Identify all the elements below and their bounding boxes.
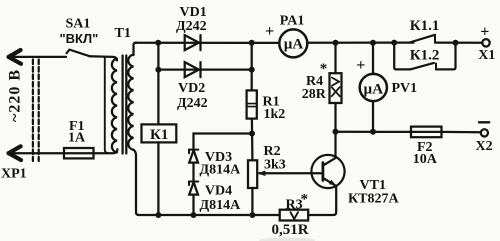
- wire: R2 wiper to VT1 base: [259, 172, 322, 174]
- wire: K1 to ground rail: [157, 142, 159, 215]
- junction: K1.1/K1.2 split: [391, 40, 397, 46]
- potentiometer R2: [248, 160, 257, 188]
- transformer T1 core: [121, 56, 123, 154]
- junction: R1 bottom node: [249, 131, 255, 137]
- meter PA1: [279, 29, 307, 57]
- wire: F2 to X2: [442, 131, 481, 134]
- transistor VT1: [311, 155, 344, 188]
- svg-text:1А: 1А: [68, 130, 86, 145]
- relay coil K1: [142, 124, 177, 142]
- wire: top rail left section: [135, 42, 279, 44]
- svg-text:*: *: [320, 61, 328, 77]
- junction: top rail to K1 branch: [155, 40, 161, 46]
- svg-text:0,51R: 0,51R: [272, 222, 309, 238]
- node: arrow head bottom pin XP1: [9, 146, 21, 160]
- svg-text:Д814А: Д814А: [200, 198, 242, 213]
- wire: SA1 to T1 primary: [90, 56, 118, 60]
- node: R2 wiper arrowhead: [257, 171, 265, 177]
- svg-text:К1: К1: [150, 127, 168, 143]
- wire: PV1 bottom lead: [372, 101, 374, 132]
- junction: PV1 bottom: [370, 129, 376, 135]
- svg-text:SA1: SA1: [66, 17, 91, 32]
- wire: collector riser: [334, 132, 336, 158]
- svg-text:К1.2: К1.2: [410, 48, 440, 64]
- junction: top rail to R1 column: [249, 40, 255, 46]
- zener VD4: [189, 182, 198, 195]
- meter PV1: [360, 74, 387, 101]
- svg-text:"ВКЛ": "ВКЛ": [60, 31, 99, 46]
- wire: VD4 to ground rail: [192, 195, 194, 215]
- junction: R4 top on rail: [333, 40, 339, 46]
- diode VD2: [185, 62, 201, 77]
- wire: F1 to transformer primary: [94, 149, 118, 153]
- wire: R2 bottom to ground rail: [251, 188, 253, 215]
- fuse F2: [411, 127, 442, 138]
- resistor R4: [330, 73, 342, 103]
- wire: K1.1 to X1: [435, 41, 482, 43]
- wire: rail to R4: [334, 43, 336, 73]
- wire: output node to F2: [336, 131, 412, 133]
- junction: K1 on ground rail: [155, 212, 161, 218]
- switch SA1 lever: [67, 50, 90, 57]
- wire: R1 column: [251, 43, 253, 91]
- svg-text:Д814А: Д814А: [200, 163, 242, 178]
- node: X2 minus sign: [479, 121, 489, 123]
- junction: R2 on ground rail: [249, 212, 255, 218]
- junction: PV1 top on rail: [370, 40, 376, 46]
- svg-text:Д242: Д242: [177, 96, 208, 111]
- svg-text:Т1: Т1: [115, 26, 131, 41]
- wire: node to zener chain: [194, 134, 253, 149]
- wire: AC input bottom pin shaft: [9, 152, 64, 154]
- resistor R1: [247, 90, 257, 118]
- wire: K1.2 branch left drop: [394, 43, 410, 70]
- fuse F1: [64, 148, 94, 158]
- svg-text:+: +: [356, 57, 365, 74]
- wire: emitter to ground rail corner: [308, 186, 336, 215]
- svg-text:VD4: VD4: [205, 183, 232, 198]
- wire: K1.2 rejoin riser: [436, 43, 456, 70]
- svg-text:1k2: 1k2: [264, 107, 286, 122]
- wire: VD2 anode branch: [158, 68, 251, 70]
- svg-text:VD1: VD1: [180, 5, 207, 20]
- svg-text:3k3: 3k3: [264, 157, 286, 172]
- svg-text:КТ827А: КТ827А: [348, 192, 399, 207]
- node: arrow head top pin XP1: [9, 50, 21, 64]
- svg-text:*: *: [301, 191, 309, 207]
- svg-text:Д242: Д242: [176, 19, 207, 34]
- wire: R1 bottom to R2 top: [251, 119, 254, 161]
- wire: K1 branch vertical: [157, 43, 159, 125]
- wire: VD3 to VD4: [192, 163, 194, 182]
- wire: primary left return line: [105, 57, 108, 153]
- svg-text:~220 В: ~220 В: [7, 69, 24, 122]
- wire: ground rail: [138, 214, 280, 216]
- wire: R4 bottom to node: [334, 103, 336, 132]
- transformer T1 primary winding: [112, 59, 117, 153]
- svg-text:VD2: VD2: [178, 81, 205, 96]
- junction: VD2 branch: [155, 67, 161, 73]
- svg-text:К1.1: К1.1: [410, 18, 440, 34]
- svg-text:28R: 28R: [302, 87, 327, 102]
- resistor R3: [280, 210, 309, 221]
- svg-text:+: +: [480, 24, 489, 41]
- svg-text:ХР1: ХР1: [1, 166, 27, 181]
- svg-text:Х2: Х2: [476, 139, 493, 154]
- wire: secondary top lead to rail: [134, 43, 137, 55]
- terminal X1: [482, 39, 489, 46]
- junction: R4 bottom / collector / output node: [333, 129, 339, 135]
- wire: AC input top pin shaft: [9, 56, 66, 58]
- junction: VD2 cathode to R1 column: [249, 67, 255, 73]
- wire: PV1 top lead: [372, 43, 374, 74]
- zener VD3: [189, 150, 198, 163]
- junction: K1.2 rejoin: [453, 40, 459, 46]
- wire: top rail PA1 to K1.1 contact: [307, 41, 413, 43]
- svg-text:PV1: PV1: [392, 81, 418, 96]
- transformer T1 secondary winding: [128, 55, 133, 150]
- contact K1.2 lever: [410, 63, 436, 70]
- diode VD1: [185, 35, 201, 50]
- connector XP1 dashed boundary: [33, 60, 39, 162]
- svg-text:PA1: PA1: [280, 14, 305, 29]
- svg-text:+: +: [265, 23, 274, 40]
- wire: secondary bottom lead down to ground rail: [134, 150, 140, 215]
- svg-text:Х1: Х1: [478, 48, 495, 63]
- contact K1.1 lever: [410, 35, 436, 43]
- svg-text:µА: µА: [284, 37, 304, 53]
- junction: zener chain on ground rail: [191, 212, 197, 218]
- scan artifact bottom smudge: [259, 237, 315, 241]
- terminal X2: [481, 129, 488, 136]
- svg-text:µА: µА: [364, 81, 384, 97]
- svg-text:10А: 10А: [413, 152, 438, 167]
